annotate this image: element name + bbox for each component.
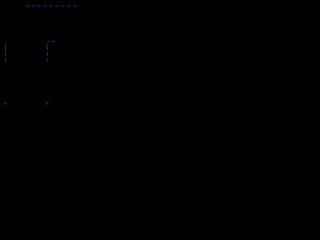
nav link dash 7 [68,5,71,6]
nav blue icon dot [28,5,29,6]
nav link dash 5 [56,5,59,6]
nav link dash 4 [50,5,53,6]
right column bar 1 [47,46,48,50]
nav link dash 3 [44,5,47,6]
nav link dash 8 [74,5,77,6]
left column bar 3 [5,58,6,61]
right column bar 2 [47,52,48,56]
nav link dash 2 [38,5,40,6]
right column header dash B [52,41,55,42]
page background [0,0,123,125]
nav link dash 1 [32,5,36,6]
left red bullet [4,103,6,105]
nav link dash 6 [62,5,65,6]
right red bullet [47,103,49,105]
right column header dash A [48,41,50,42]
nav red icon [26,5,27,6]
left column dot [5,43,6,44]
right column dot [47,43,48,44]
left column bar 2 [5,52,6,56]
right column bar 3 [47,58,48,61]
left column bar 1 [5,46,6,50]
